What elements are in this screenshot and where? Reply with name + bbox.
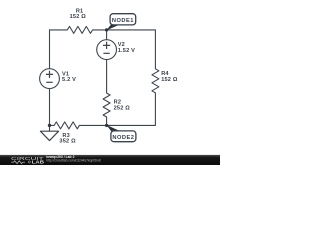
svg-text:152 Ω: 152 Ω <box>70 14 87 20</box>
svg-text:5.2 V: 5.2 V <box>62 77 76 83</box>
svg-text:252 Ω: 252 Ω <box>114 105 131 111</box>
svg-text:V2: V2 <box>118 42 125 48</box>
svg-text:NODE1: NODE1 <box>112 18 134 24</box>
svg-text:LAB: LAB <box>32 159 45 164</box>
svg-text:1.52 V: 1.52 V <box>118 48 135 54</box>
svg-text:352 Ω: 352 Ω <box>59 139 76 145</box>
svg-text:http://circuitlab.com/c3244s7k: http://circuitlab.com/c3244s7kqm5rv8 <box>46 158 101 162</box>
svg-text:152 Ω: 152 Ω <box>161 77 178 83</box>
svg-text:NODE2: NODE2 <box>112 135 134 141</box>
